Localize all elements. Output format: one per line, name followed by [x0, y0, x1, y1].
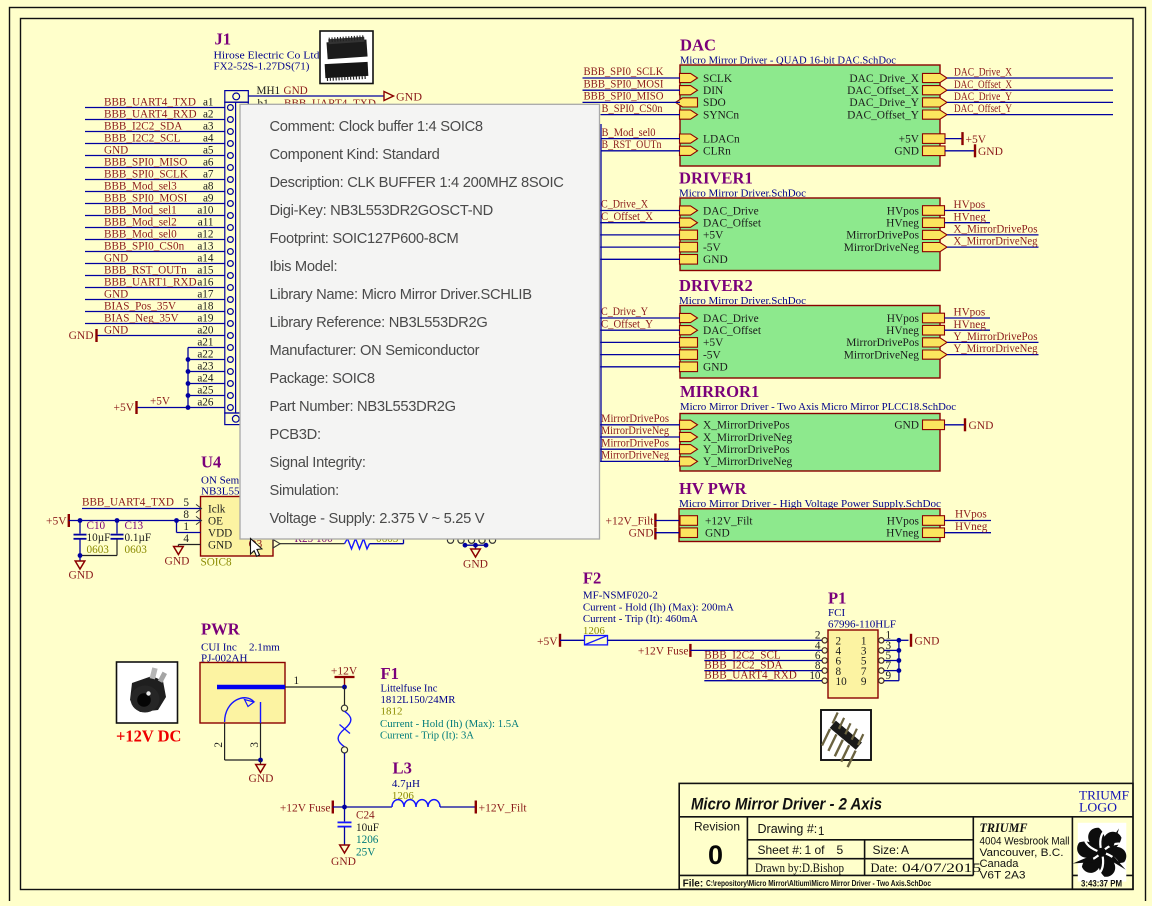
- capacitor C10: [79, 521, 81, 534]
- svg-text:GND: GND: [396, 90, 422, 104]
- P1 pin 6: [822, 658, 827, 663]
- svg-text:DAC_Drive: DAC_Drive: [703, 313, 759, 325]
- wire GND: [945, 424, 965, 426]
- DRIVER1 pin HVneg: [923, 218, 945, 228]
- wire J1 pin a16: [85, 287, 225, 289]
- svg-text:Date:: Date:: [871, 861, 898, 875]
- DRIVER1 pin GND: [680, 255, 698, 265]
- svg-text:FCI: FCI: [828, 607, 845, 619]
- junction: [186, 381, 191, 386]
- svg-text:a15: a15: [197, 264, 214, 276]
- svg-text:C_Drive_Y: C_Drive_Y: [601, 306, 648, 318]
- DRIVER2 pin -5V: [680, 350, 698, 360]
- MIRROR1 pin GND: [923, 420, 945, 430]
- svg-text:X_MirrorDrivePos: X_MirrorDrivePos: [954, 224, 1038, 236]
- junction: [78, 518, 83, 523]
- svg-text:J1: J1: [215, 30, 232, 49]
- svg-text:DAC_Drive: DAC_Drive: [703, 205, 759, 217]
- svg-text:a6: a6: [203, 156, 214, 168]
- svg-text:4004 Wesbrook Mall: 4004 Wesbrook Mall: [980, 836, 1070, 848]
- svg-text:Current - Trip (It): 460mA: Current - Trip (It): 460mA: [583, 613, 698, 625]
- svg-text:LDACn: LDACn: [703, 133, 740, 145]
- svg-text:DIN: DIN: [703, 85, 723, 97]
- wire J1 pin a4: [85, 143, 225, 145]
- DAC pin SDO: [676, 98, 698, 107]
- svg-text:GND: GND: [703, 254, 728, 266]
- svg-text:GND: GND: [894, 146, 919, 158]
- svg-text:Y_MirrorDriveNeg: Y_MirrorDriveNeg: [703, 456, 793, 468]
- wire DAC_Drive_X: [947, 77, 1113, 79]
- svg-text:a3: a3: [203, 120, 214, 132]
- svg-text:0603: 0603: [87, 544, 110, 556]
- svg-text:GND: GND: [463, 559, 488, 571]
- wire U4 GND pin: [178, 544, 200, 546]
- svg-text:a14: a14: [197, 252, 214, 264]
- wire J1 pin a3: [85, 131, 225, 133]
- svg-text:SYNCn: SYNCn: [703, 109, 739, 121]
- wire J1 pin a21: [188, 347, 225, 349]
- wire +5V: [945, 138, 963, 140]
- svg-text:HVpos: HVpos: [887, 205, 920, 217]
- svg-text:8: 8: [183, 509, 189, 521]
- svg-text:1: 1: [294, 675, 300, 687]
- svg-text:C:\repository\Micro Mirror\Alt: C:\repository\Micro Mirror\Altium\Micro …: [706, 878, 931, 888]
- svg-text:a2: a2: [203, 108, 214, 120]
- component properties tooltip: [240, 104, 600, 539]
- wire +12V to F1: [344, 687, 346, 705]
- svg-text:GND: GND: [104, 288, 128, 300]
- svg-text:1812L150/24MR: 1812L150/24MR: [381, 694, 457, 706]
- wire J1 pin a14: [85, 263, 225, 265]
- svg-text:DAC_Drive_X: DAC_Drive_X: [954, 67, 1012, 79]
- wire J1 pin a19: [85, 323, 225, 325]
- wire to U4 pin 5: [82, 508, 201, 510]
- wire J1 pin a24: [188, 383, 225, 385]
- wire B_RST_OUTn: [601, 150, 681, 152]
- wire: [600, 341, 681, 343]
- svg-text:a19: a19: [197, 312, 214, 324]
- J1 pin MH2: [232, 415, 239, 422]
- svg-text:Y_MirrorDriveNeg: Y_MirrorDriveNeg: [954, 343, 1038, 355]
- svg-text:2: 2: [213, 742, 225, 748]
- svg-text:HV PWR: HV PWR: [679, 479, 747, 498]
- junction: [186, 405, 191, 410]
- P1 header photo: [821, 710, 871, 767]
- power port GND at MIRROR1: [964, 418, 966, 431]
- DRIVER1 pin MirrorDriveNeg: [923, 243, 948, 252]
- svg-text:BBB_SPI0_MISO: BBB_SPI0_MISO: [104, 156, 187, 168]
- svg-text:1: 1: [805, 843, 812, 857]
- wire MH1 to GND: [248, 95, 384, 97]
- svg-text:+12V_Filt: +12V_Filt: [705, 515, 753, 527]
- component Y1 pads: [447, 537, 453, 543]
- svg-text:+12V_Filt: +12V_Filt: [479, 802, 528, 814]
- svg-text:+5V: +5V: [46, 515, 67, 527]
- resistor R25: [345, 539, 370, 549]
- J1 pin MH1: [233, 93, 240, 100]
- wire: [600, 210, 681, 212]
- svg-text:BIAS_Pos_35V: BIAS_Pos_35V: [104, 300, 176, 312]
- svg-text:Signal Integrity:: Signal Integrity:: [270, 455, 366, 471]
- svg-text:X_MirrorDriveNeg: X_MirrorDriveNeg: [703, 432, 793, 444]
- svg-text:a12: a12: [197, 228, 213, 240]
- svg-text:DAC_Offset_Y: DAC_Offset_Y: [954, 103, 1012, 115]
- wire: [600, 424, 681, 426]
- svg-text:GND: GND: [284, 85, 308, 97]
- DAC pin DAC_Offset_Y: [923, 110, 948, 119]
- svg-text:Revision: Revision: [694, 820, 740, 834]
- sheet symbol DAC body: [680, 65, 940, 166]
- svg-text:BBB_UART4_RXD: BBB_UART4_RXD: [104, 108, 197, 120]
- svg-text:LOGO: LOGO: [1079, 801, 1117, 815]
- svg-text:GND: GND: [331, 856, 356, 868]
- svg-text:a21: a21: [197, 336, 213, 348]
- junction: [897, 668, 902, 673]
- DAC pin CLRn: [680, 146, 698, 155]
- wire: [600, 234, 681, 236]
- svg-text:Current - Hold (Ih) (Max): 1.5: Current - Hold (Ih) (Max): 1.5A: [380, 718, 519, 730]
- junction: [174, 518, 179, 523]
- svg-text:4.7µH: 4.7µH: [392, 778, 420, 790]
- svg-text:Component Kind: Standard: Component Kind: Standard: [270, 147, 440, 163]
- wire J1 pin a20: [96, 335, 225, 337]
- svg-text:BBB_SPI0_MOSI: BBB_SPI0_MOSI: [104, 192, 188, 204]
- wire: [884, 680, 899, 682]
- wire J1 pin a10: [85, 215, 225, 217]
- svg-text:MirrorDrivePos: MirrorDrivePos: [846, 337, 919, 349]
- svg-text:SDO: SDO: [703, 97, 726, 109]
- wire DAC_Drive_Y: [947, 101, 1113, 103]
- svg-text:GND: GND: [894, 420, 919, 432]
- svg-text:Voltage - Supply: 2.375 V ~ 5.: Voltage - Supply: 2.375 V ~ 5.25 V: [270, 511, 485, 527]
- sheet symbol DRIVER2 body: [680, 306, 940, 379]
- svg-text:+5V: +5V: [150, 396, 170, 408]
- svg-text:Part Number: NB3L553DR2G: Part Number: NB3L553DR2G: [270, 399, 456, 415]
- DRIVER2 pin MirrorDrivePos: [923, 338, 948, 347]
- DRIVER1 pin DAC_Offset: [680, 218, 698, 227]
- svg-text:5: 5: [183, 497, 189, 509]
- wire PWR pin 1: [285, 686, 345, 688]
- wire P1 pin 4: [690, 649, 822, 651]
- svg-text:HVpos: HVpos: [887, 515, 920, 527]
- J1 connector body: [225, 91, 249, 103]
- svg-text:+12V_Filt: +12V_Filt: [605, 515, 654, 527]
- svg-text:a13: a13: [197, 240, 214, 252]
- svg-text:10µF: 10µF: [87, 532, 111, 544]
- svg-text:04/07/2015: 04/07/2015: [902, 861, 981, 875]
- wire J1 pin a9: [85, 203, 225, 205]
- wire: [600, 317, 681, 319]
- svg-text:Simulation:: Simulation:: [270, 483, 339, 499]
- svg-text:BBB_Mod_sel3: BBB_Mod_sel3: [104, 180, 177, 192]
- DAC pin +5V: [923, 134, 946, 144]
- svg-text:Canada: Canada: [980, 858, 1019, 870]
- wire B_Mod_sel0: [601, 138, 681, 140]
- wire +5V to F2: [560, 639, 585, 641]
- svg-text:a8: a8: [203, 180, 214, 192]
- svg-text:C_Drive_X: C_Drive_X: [601, 199, 648, 211]
- svg-text:DRIVER2: DRIVER2: [679, 276, 753, 295]
- svg-text:DAC_Drive_Y: DAC_Drive_Y: [849, 97, 919, 109]
- svg-text:a26: a26: [197, 396, 214, 408]
- svg-text:Iclk: Iclk: [208, 503, 226, 515]
- svg-text:4: 4: [183, 533, 189, 545]
- U4 output pin arrow: [273, 540, 280, 549]
- svg-text:BBB_UART4_RXD: BBB_UART4_RXD: [704, 670, 797, 682]
- svg-text:3: 3: [249, 742, 261, 748]
- svg-text:Library Reference: NB3L553DR2G: Library Reference: NB3L553DR2G: [270, 315, 488, 331]
- svg-text:a10: a10: [197, 204, 214, 216]
- svg-text:a25: a25: [197, 384, 214, 396]
- P1 pin 8: [822, 668, 827, 673]
- DAC pin SYNCn: [680, 110, 698, 119]
- svg-text:C_Offset_Y: C_Offset_Y: [601, 318, 653, 330]
- title block frame: [679, 783, 1133, 889]
- U4 body: [201, 497, 274, 557]
- wire: [600, 246, 681, 248]
- svg-text:HVneg: HVneg: [955, 521, 988, 533]
- wire J1 pin a5: [85, 155, 225, 157]
- svg-text:Y_MirrorDrivePos: Y_MirrorDrivePos: [703, 444, 790, 456]
- svg-text:HVneg: HVneg: [954, 211, 987, 223]
- svg-text:MirrorDrivePos: MirrorDrivePos: [601, 437, 669, 449]
- svg-text:BBB_SPI0_SCLK: BBB_SPI0_SCLK: [104, 168, 188, 180]
- wire BBB_SPI0_MOSI: [583, 89, 681, 91]
- svg-text:Drawn by:D.Bishop: Drawn by:D.Bishop: [755, 861, 844, 875]
- wire J1 pin a23: [188, 371, 225, 373]
- svg-text:GND: GND: [104, 252, 128, 264]
- wire P1 pin 8: [704, 670, 822, 672]
- svg-text:DRIVER1: DRIVER1: [679, 169, 753, 188]
- wire HVneg: [945, 222, 991, 224]
- HV PWR pin HVpos: [923, 516, 945, 526]
- svg-text:BBB_SPI0_CS0n: BBB_SPI0_CS0n: [104, 240, 185, 252]
- DRIVER2 pin DAC_Offset: [680, 326, 698, 335]
- svg-text:Comment: Clock buffer 1:4 SOIC: Comment: Clock buffer 1:4 SOIC8: [270, 119, 483, 135]
- DRIVER2 pin GND: [680, 362, 698, 372]
- MIRROR1 pin Y_MirrorDrivePos: [680, 445, 698, 454]
- svg-text:HVneg: HVneg: [886, 325, 919, 337]
- svg-text:10uF: 10uF: [356, 822, 379, 834]
- svg-text:1206: 1206: [356, 834, 379, 846]
- junction: [258, 758, 263, 763]
- junction: [186, 369, 191, 374]
- power port GND at DAC: [974, 144, 976, 157]
- wire Y_MirrorDriveNeg: [947, 354, 1039, 356]
- PWR body: [200, 663, 285, 724]
- DAC pin GND: [923, 146, 946, 156]
- svg-text:VDD: VDD: [208, 527, 232, 539]
- wire: [600, 258, 681, 260]
- power port GND (arrow style) at MH1: [384, 92, 394, 101]
- wire P1 pin 1 to GND: [884, 639, 899, 641]
- svg-text:HVpos: HVpos: [955, 509, 987, 521]
- bus wire from J1 b-side: [600, 124, 602, 461]
- wire J1 pin a15: [85, 275, 225, 277]
- svg-text:BBB_UART4_TXD: BBB_UART4_TXD: [104, 96, 196, 108]
- wire HVneg: [945, 532, 992, 534]
- svg-text:GND: GND: [104, 324, 128, 336]
- DRIVER1 pin HVpos: [923, 206, 945, 216]
- HV PWR pin +12V_Filt: [680, 516, 698, 526]
- DAC pin SCLK: [680, 73, 698, 82]
- DRIVER2 pin DAC_Drive: [680, 313, 698, 322]
- svg-text:a17: a17: [197, 288, 214, 300]
- svg-text:+12V Fuse: +12V Fuse: [280, 802, 331, 814]
- wire X_MirrorDriveNeg: [947, 246, 1039, 248]
- svg-text:B_SPI0_CS0n: B_SPI0_CS0n: [602, 103, 663, 115]
- wire to L3: [333, 806, 392, 808]
- svg-text:GND: GND: [104, 144, 128, 156]
- wire X_MirrorDrivePos: [947, 234, 1039, 236]
- svg-text:+5V: +5V: [113, 402, 134, 414]
- wire J1 pin a8: [85, 191, 225, 193]
- svg-text:-5V: -5V: [703, 242, 721, 254]
- svg-text:MirrorDrivePos: MirrorDrivePos: [846, 230, 919, 242]
- svg-text:Manufacturer: ON Semiconductor: Manufacturer: ON Semiconductor: [270, 343, 480, 359]
- svg-text:B_RST_OUTn: B_RST_OUTn: [602, 139, 662, 151]
- wire: [600, 436, 681, 438]
- svg-text:V6T 2A3: V6T 2A3: [980, 870, 1026, 882]
- svg-text:BBB_Mod_sel0: BBB_Mod_sel0: [104, 228, 177, 240]
- svg-text:of: of: [815, 843, 826, 857]
- DAC pin DIN: [680, 86, 698, 95]
- wire U4 pin 7 to R25: [280, 543, 345, 545]
- P1 pin 4: [822, 648, 827, 653]
- svg-text:MirrorDriveNeg: MirrorDriveNeg: [844, 349, 920, 361]
- P1 pin 10: [822, 678, 827, 683]
- svg-text:1206: 1206: [392, 790, 415, 802]
- svg-text:BBB_I2C2_SCL: BBB_I2C2_SCL: [104, 132, 181, 144]
- wire B_SPI0_CS0n: [601, 114, 681, 116]
- svg-text:a1: a1: [203, 96, 214, 108]
- svg-text:HVpos: HVpos: [887, 313, 920, 325]
- svg-text:Library Name: Micro Mirror Dri: Library Name: Micro Mirror Driver.SCHLIB: [270, 287, 533, 303]
- svg-text:DAC_Offset_X: DAC_Offset_X: [847, 85, 920, 97]
- svg-text:BBB_UART4_TXD: BBB_UART4_TXD: [82, 496, 174, 508]
- svg-text:L3: L3: [393, 759, 412, 778]
- wire J1 pin a13: [85, 251, 225, 253]
- wire J1 pin a12: [85, 239, 225, 241]
- svg-text:GND: GND: [703, 362, 728, 374]
- svg-text:a24: a24: [197, 372, 214, 384]
- svg-text:BBB_SPI0_MISO: BBB_SPI0_MISO: [584, 91, 664, 103]
- svg-text:67996-110HLF: 67996-110HLF: [828, 619, 896, 631]
- svg-text:P1: P1: [828, 589, 846, 608]
- P1 pin 2: [822, 638, 827, 643]
- svg-text:a23: a23: [197, 360, 214, 372]
- svg-text:GND: GND: [629, 528, 654, 540]
- svg-text:Micro Mirror Driver - Two Axis: Micro Mirror Driver - Two Axis Micro Mir…: [680, 401, 956, 413]
- wire: [884, 670, 899, 672]
- svg-text:2.1mm: 2.1mm: [249, 642, 280, 654]
- wire: [600, 366, 681, 368]
- wire J1 pin a2: [85, 119, 225, 121]
- wire R25 to net: [370, 543, 404, 545]
- svg-text:BIAS_Neg_35V: BIAS_Neg_35V: [104, 312, 179, 324]
- wire: [600, 222, 681, 224]
- svg-text:HVneg: HVneg: [886, 528, 919, 540]
- DRIVER2 pin HVneg: [923, 325, 945, 335]
- PWR sleeve arc: [225, 698, 254, 722]
- capacitor C13: [116, 521, 118, 534]
- svg-text:U4: U4: [201, 453, 221, 472]
- wire DAC_Offset_X: [947, 89, 1113, 91]
- svg-text:Current - Hold (Ih) (Max): 200: Current - Hold (Ih) (Max): 200mA: [583, 602, 734, 614]
- svg-text:HVneg: HVneg: [886, 218, 919, 230]
- wire: [655, 520, 679, 522]
- svg-text:MirrorDriveNeg: MirrorDriveNeg: [601, 425, 669, 437]
- svg-text:GND: GND: [969, 420, 994, 432]
- svg-text:F2: F2: [583, 569, 601, 588]
- svg-text:a18: a18: [197, 300, 214, 312]
- fuse F2 symbol: [585, 636, 608, 645]
- wire P1 pin 6: [704, 660, 822, 662]
- P1 pin 1: [879, 638, 884, 643]
- svg-text:a16: a16: [197, 276, 214, 288]
- svg-text:GND: GND: [69, 330, 94, 342]
- svg-text:DAC_Offset: DAC_Offset: [703, 218, 762, 230]
- wire HVpos: [945, 210, 991, 212]
- svg-text:a4: a4: [203, 132, 214, 144]
- svg-text:+5V: +5V: [537, 636, 558, 648]
- svg-text:a9: a9: [203, 192, 214, 204]
- svg-text:+12V Fuse: +12V Fuse: [638, 646, 689, 658]
- DAC pin DAC_Drive_X: [923, 73, 948, 82]
- HV PWR pin GND: [680, 528, 698, 538]
- svg-text:25V: 25V: [356, 846, 375, 858]
- svg-text:GND: GND: [978, 146, 1003, 158]
- DAC pin LDACn: [680, 134, 698, 143]
- svg-text:+12V DC: +12V DC: [116, 727, 181, 746]
- DRIVER1 pin +5V: [680, 230, 698, 240]
- svg-text:+12V: +12V: [331, 666, 358, 678]
- svg-text:HVneg: HVneg: [954, 319, 987, 331]
- P1 pin 9: [879, 678, 884, 683]
- inductor L3: [392, 800, 440, 807]
- svg-text:F1: F1: [381, 664, 399, 683]
- HV PWR pin HVneg: [923, 528, 945, 538]
- svg-text:PCB3D:: PCB3D:: [270, 427, 321, 443]
- svg-text:BBB_RST_OUTn: BBB_RST_OUTn: [104, 264, 187, 276]
- wire: [600, 329, 681, 331]
- svg-text:a20: a20: [197, 324, 214, 336]
- wire: [600, 354, 681, 356]
- svg-text:Drawing #:: Drawing #:: [758, 822, 818, 836]
- svg-text:MirrorDriveNeg: MirrorDriveNeg: [601, 450, 669, 462]
- svg-text:+5V: +5V: [703, 337, 724, 349]
- svg-text:Size:: Size:: [873, 843, 900, 857]
- svg-text:10: 10: [836, 676, 848, 688]
- wire J1 pin a22: [188, 359, 225, 361]
- vertical bus wire a21-a26: [187, 348, 189, 408]
- junction: [897, 658, 902, 663]
- wire GND: [945, 150, 975, 152]
- wire joining PWR pins 2,3: [225, 759, 261, 761]
- svg-text:C24: C24: [356, 810, 375, 822]
- wire DAC_Offset_Y: [947, 114, 1113, 116]
- svg-text:a22: a22: [197, 348, 213, 360]
- svg-text:Digi-Key: NB3L553DR2GOSCT-ND: Digi-Key: NB3L553DR2GOSCT-ND: [270, 203, 493, 219]
- svg-text:0603: 0603: [125, 544, 148, 556]
- junction: [897, 638, 902, 643]
- PWR jack photo: [117, 662, 178, 723]
- svg-text:FX2-52S-1.27DS(71): FX2-52S-1.27DS(71): [214, 61, 310, 73]
- wire: [600, 460, 681, 462]
- svg-text:1: 1: [183, 521, 189, 533]
- svg-text:DAC_Offset_Y: DAC_Offset_Y: [847, 109, 919, 121]
- svg-text:DAC_Drive_X: DAC_Drive_X: [849, 73, 919, 85]
